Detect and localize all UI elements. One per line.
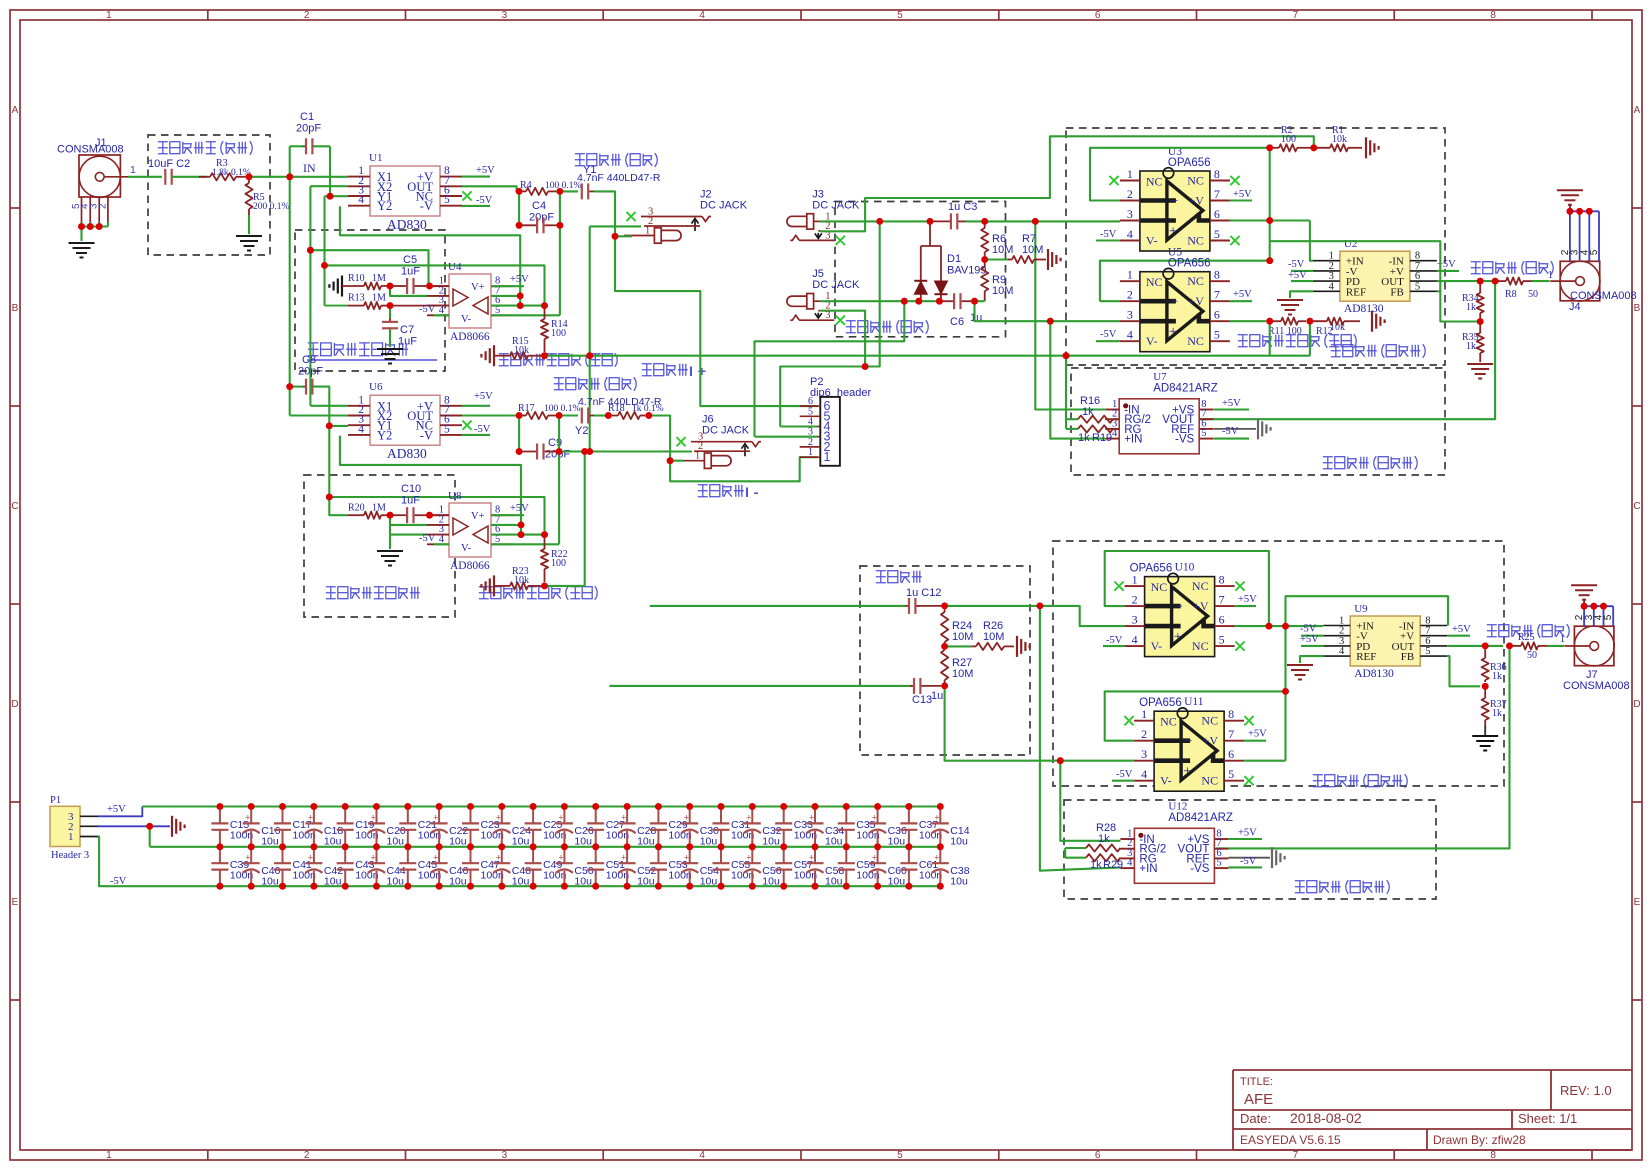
svg-text:Y2: Y2 [377,199,392,213]
svg-text:8: 8 [1219,573,1225,587]
capacitor C61 [908,847,910,863]
junction J1 shield c [96,223,103,230]
svg-text:20pF: 20pF [296,123,321,135]
svg-text:6: 6 [1095,1150,1101,1161]
wire Y1 to J2 node [594,191,615,236]
wire U6 pin1 from X2line [310,405,348,407]
svg-text:OPA656: OPA656 [1168,258,1211,270]
svg-text:C1: C1 [300,111,314,123]
svg-text:NC: NC [1146,275,1163,289]
svg-text:Y2: Y2 [377,428,392,442]
svg-text:10u: 10u [950,876,968,888]
junction C13 out [941,683,948,690]
resistor R14 [544,306,546,319]
junction J5c [936,298,943,305]
svg-text:6: 6 [1219,613,1225,627]
junction R4 right [557,188,564,195]
capacitor C25 [530,803,537,810]
svg-text:+: + [496,852,501,862]
svg-text:+5V: +5V [1248,729,1267,740]
capacitor C2 [164,169,166,185]
wire R8 to J4 [1532,280,1550,282]
junction R20-C10 [387,512,394,519]
svg-text:8: 8 [1228,707,1234,721]
junction shield J2 riser [586,352,593,359]
wire C9 node to U8 pin5 [558,452,560,545]
svg-text:5: 5 [1589,249,1600,255]
junction C1-Y1 [327,193,334,200]
svg-text:1: 1 [1132,573,1138,587]
wire R4 to Y1cap [556,190,578,192]
svg-text:4: 4 [1127,227,1133,241]
capacitor C30 [686,803,693,810]
svg-text:1: 1 [1560,634,1565,645]
wire P2 pin4 route [780,425,817,427]
wire U5 -5V stub [1096,340,1120,342]
capacitor C36 [874,803,881,810]
svg-text:NC: NC [1192,639,1209,653]
no-connect U10 pin5 [1235,642,1244,651]
wire U3 -5V stub [1096,239,1120,241]
svg-text:+5V: +5V [476,165,495,176]
wire U4 pin7 [491,295,520,297]
wire U4 pin5 [491,314,560,316]
svg-text:100n: 100n [919,870,943,882]
svg-text:4: 4 [358,423,364,435]
svg-text:-5V: -5V [419,533,436,544]
svg-text:1uF: 1uF [401,266,420,278]
junction shield RG riser [1063,352,1070,359]
svg-text:+5V: +5V [1222,398,1241,409]
ground U9 REF [1287,664,1313,666]
svg-text:+: + [371,852,376,862]
label dianLiuCaiJi 1 [1313,774,1407,788]
svg-text:U7: U7 [1153,371,1167,383]
wire C5 to U4 pin1 [430,285,450,287]
wire U3 +5V stub [1230,199,1252,201]
svg-text:-5V: -5V [476,195,493,206]
wire J3 pin1 [820,220,876,222]
svg-text:+: + [371,813,376,823]
wire U2 FB to R34 node [1440,291,1480,321]
svg-text:7: 7 [1228,727,1234,741]
wire U6 Y2 [340,436,521,535]
svg-text:D1: D1 [947,253,961,265]
no-connect U11 pin5 [1244,776,1253,785]
svg-text:10u: 10u [324,876,342,888]
svg-text:10u: 10u [574,836,592,848]
wire Y2 to R18 [594,414,605,416]
no-connect U6 pin6 [462,421,471,430]
wire U12 pin8 stub [1228,838,1262,840]
junction C3 riser [1032,218,1039,225]
ground bars R7 [1047,249,1049,270]
svg-text:+: + [684,852,689,862]
junction U11 fb tap [1282,688,1289,695]
svg-text:U6: U6 [369,381,383,393]
label jingXiangDianLiu I- [698,485,744,497]
wire U8 pin7 [491,524,521,526]
svg-text:NC: NC [1187,174,1204,188]
svg-text:10u: 10u [574,876,592,888]
junction U5pin3 riser [1047,318,1054,325]
wire U9 REF gnd [1300,656,1323,663]
svg-text:10u: 10u [387,836,405,848]
svg-text:R11 100: R11 100 [1268,326,1302,337]
wire caprail top [142,805,940,807]
wire U9 pin7 stub [1447,635,1470,637]
IC U7 AD8421ARZ [1119,399,1199,454]
svg-text:2: 2 [97,203,108,209]
wire U7 pin8 stub [1213,408,1249,410]
capacitor C31 [718,803,725,810]
svg-text:100n: 100n [606,830,630,842]
wire J3 pin1 riser tie [865,221,880,366]
wire U2 pin2 stub [1291,270,1313,272]
junction R17 right [556,412,563,419]
svg-text:100: 100 [551,328,566,339]
svg-text:-V: -V [420,428,433,442]
ground J7 shield [1571,584,1597,586]
svg-text:R10: R10 [348,273,365,284]
svg-text:10u: 10u [637,836,655,848]
capacitor C56 [751,847,753,863]
svg-text:2: 2 [1127,288,1133,302]
junction C8 left [286,383,293,390]
svg-text:DC JACK: DC JACK [812,199,860,211]
svg-text:U8: U8 [448,490,462,502]
svg-text:NC: NC [1187,274,1204,288]
svg-text:1M: 1M [372,503,386,514]
wire hook ground [389,535,391,549]
junction R8 left [1492,278,1499,285]
svg-text:−: − [1184,734,1192,750]
junction P1 gnd [146,823,153,830]
wire C6 node to U7 pin4 [1050,321,1105,438]
svg-text:D: D [1633,699,1640,710]
capacitor C14 [937,803,944,810]
svg-text:-5V: -5V [1288,259,1305,270]
wire shield bottom to riser [545,585,585,587]
svg-text:100n: 100n [731,830,755,842]
svg-text:20pF: 20pF [529,212,554,224]
op-amp U10 OPA656 [1145,577,1215,657]
wire U12 REF gnd [1228,857,1270,859]
resistor R18 [608,415,618,417]
svg-text:-5V: -5V [1100,329,1117,340]
svg-text:1: 1 [68,831,74,843]
svg-text:+5V: +5V [1233,189,1252,200]
svg-text:1uF: 1uF [401,495,420,507]
junction R17 left [516,412,523,419]
svg-text:NC: NC [1151,580,1168,594]
junction J1 shield b [87,223,94,230]
svg-text:-5V: -5V [474,424,491,435]
capacitor C46 [438,847,440,863]
svg-text:-5V: -5V [1222,426,1239,437]
svg-text:10u: 10u [512,876,530,888]
svg-text:DC JACK: DC JACK [702,425,750,437]
svg-text:100n: 100n [481,870,505,882]
svg-text:-V: -V [420,199,433,213]
svg-text:10u: 10u [324,836,342,848]
svg-text:+: + [1169,324,1177,340]
svg-text:4: 4 [1339,646,1345,657]
label fanXiangServo [326,587,420,599]
svg-text:U4: U4 [448,261,462,273]
wire C12 node to U10 [941,606,1125,626]
svg-text:+: + [1183,764,1191,780]
op-amp U5 OPA656 [1140,272,1210,352]
wire U3 out [1230,219,1310,221]
junction R34-R35 [1477,318,1484,325]
svg-text:100n: 100n [355,870,379,882]
svg-text:2: 2 [304,1150,310,1161]
wire P2 pin3 route [755,436,818,438]
svg-text:-5V: -5V [419,304,436,315]
svg-text:+: + [621,813,626,823]
junction C4 right [557,222,564,229]
svg-text:U11: U11 [1184,696,1204,708]
IC U12 AD8421ARZ [1134,828,1214,883]
svg-text:+5V: +5V [1233,289,1252,300]
capacitor C50 [563,847,565,863]
ground bars R15 [493,345,495,366]
junction R36 top [1482,643,1489,650]
ground R5 [236,235,262,237]
junction dots overlay [78,144,1607,889]
svg-text:10u: 10u [888,876,906,888]
svg-text:8: 8 [1214,268,1220,282]
label dianYaCaiJi 1 [1331,344,1425,358]
svg-text:+: + [809,852,814,862]
svg-text:1: 1 [808,447,813,458]
wire U6 Y1 input [329,425,348,427]
wire U8 pin2 pin3 hook [389,515,391,534]
svg-text:3: 3 [1132,613,1138,627]
svg-text:C6: C6 [950,316,964,328]
svg-text:+: + [934,852,939,862]
wire C10 to U8 pin1 [430,514,450,516]
capacitor C49 [532,847,534,863]
svg-text:E: E [12,897,19,908]
svg-text:4: 4 [1141,767,1147,781]
wire shield line to R11R12 [545,355,1310,357]
svg-text:1u: 1u [931,690,943,702]
wire VOUT riser J4 [1199,281,1495,419]
svg-text:U2: U2 [1344,238,1357,250]
svg-text:10M: 10M [952,668,973,680]
label tongXiangServo [308,343,408,356]
wire U11 out [1244,760,1285,762]
wire U12 pin5 stub [1228,866,1262,868]
svg-text:1: 1 [1127,167,1133,181]
junction R25 left [1506,643,1513,650]
svg-text:10M: 10M [983,631,1004,643]
svg-text:+5V: +5V [1238,594,1257,605]
junction R3-R5 [246,173,253,180]
wire J6 pin1 [670,460,683,462]
svg-text:6: 6 [1228,747,1234,761]
capacitor C18 [311,803,318,810]
wire P1 -5V [98,837,220,887]
ground U2 REF [1277,299,1303,301]
svg-text:4: 4 [358,194,364,206]
capacitor C32 [749,803,756,810]
capacitor C23 [467,803,474,810]
junction R18 left [605,412,612,419]
svg-text:100n: 100n [668,870,692,882]
capacitor C43 [344,847,346,863]
wire U10 +5V stub [1235,605,1256,607]
svg-text:CONSMA008: CONSMA008 [57,144,124,156]
wire U2 pin7 stub [1437,270,1459,272]
svg-text:-5V: -5V [1240,856,1257,867]
wire Y1riser2 to R20 [329,497,348,515]
capacitor C59 [845,847,847,863]
wire U11 feedback [1105,691,1286,740]
svg-text:I: I [745,485,749,501]
wire IN bus vertical [289,146,291,415]
label geZhiDianLu [876,571,922,583]
svg-text:6: 6 [1214,207,1220,221]
svg-text:10k: 10k [1332,134,1347,145]
svg-text:C8: C8 [302,354,316,366]
junction R34 top [1477,278,1484,285]
wire U2 FB loop [1270,241,1441,291]
svg-text:+IN: +IN [1124,434,1142,446]
svg-text:8: 8 [1214,167,1220,181]
svg-text:4: 4 [699,1150,705,1161]
resistor R3 [199,176,210,178]
svg-text:C7: C7 [400,324,414,336]
svg-text:5: 5 [897,1150,903,1161]
wire U7 REF gnd [1213,428,1256,430]
junction C9 right [556,448,563,455]
ground J1 [69,242,95,244]
wire U5 feedback row [1100,261,1270,302]
svg-text:100n: 100n [230,870,254,882]
svg-text:V-: V- [461,314,472,325]
svg-text:+IN: +IN [1139,863,1157,875]
no-connect U3 pin1 [1109,176,1118,185]
svg-text:AD8130: AD8130 [1354,668,1394,680]
svg-text:+5V: +5V [510,503,529,514]
svg-text:C13: C13 [912,694,932,706]
label dianLanPingBi 2 [1238,334,1356,348]
capacitor C51 [595,847,597,863]
op-amp U11 OPA656 [1154,711,1224,791]
svg-text:V+: V+ [471,282,485,293]
junction C6 out [971,298,978,305]
capacitor C19 [342,803,349,810]
no-connect U11 pin8 [1244,716,1253,725]
wire caprail bottom [220,885,941,887]
junction J2J6 shield tie [586,448,593,455]
svg-text:4.7nF 440LD47-R: 4.7nF 440LD47-R [577,172,661,184]
junction U8out a [518,531,525,538]
ground bars R12 [1371,311,1373,332]
svg-text:10u: 10u [762,836,780,848]
svg-text:1k: 1k [1466,302,1476,313]
svg-text:+: + [934,813,939,823]
svg-text:10u: 10u [512,836,530,848]
block box current sense U12 [1064,800,1436,899]
svg-text:AD8066: AD8066 [450,331,490,343]
wire IN to U1 pin1 [286,176,348,178]
svg-text:6: 6 [1095,10,1101,21]
capacitor C41 [282,847,284,863]
wire servo feedback top [325,265,545,305]
svg-text:IN: IN [303,161,316,175]
junction J6pin2 riser [581,448,588,455]
svg-text:+: + [746,813,751,823]
svg-text:1k: 1k [1466,341,1476,352]
wire J3 pin1 to C3 [876,220,927,222]
svg-text:100: 100 [1281,134,1296,145]
wire U1 X2 input [310,185,348,187]
wire J4 shield stubs [1569,211,1571,261]
capacitor C54 [689,847,691,863]
svg-text:-5V: -5V [1116,769,1133,780]
svg-text:-: - [754,485,759,501]
junction U10out chain [1282,623,1289,630]
svg-text:3: 3 [1127,308,1133,322]
resistor R4 [519,190,526,192]
capacitor C26 [561,803,568,810]
svg-text:7: 7 [1214,288,1220,302]
wire C9 row to J6 pin2 [559,450,585,452]
wire U6 Y1 riser down [328,426,330,497]
junction shield top node [541,352,548,359]
svg-text:OPA656: OPA656 [1168,157,1211,169]
svg-text:+5V: +5V [107,804,126,815]
junction C4 left [516,222,523,229]
svg-text:R19: R19 [1092,432,1112,444]
svg-text:Sheet: 1/1: Sheet: 1/1 [1518,1111,1577,1126]
svg-text:10u: 10u [449,876,467,888]
svg-text:3: 3 [825,310,830,321]
svg-text:10u: 10u [387,876,405,888]
wire J2pin1 to P2 pin6 (mirror I+) [615,236,817,406]
svg-text:100n: 100n [919,830,943,842]
svg-text:5: 5 [1219,633,1225,647]
svg-text:2: 2 [1132,593,1138,607]
svg-text:+V: +V [1193,599,1209,613]
svg-text:10uF C2: 10uF C2 [148,158,190,170]
ground bars U12 REF [1271,847,1273,868]
label anQuanDianRong 1 [575,153,657,167]
svg-text:Drawn By: zfiw28: Drawn By: zfiw28 [1433,1133,1526,1147]
svg-text:R8: R8 [1505,289,1517,300]
svg-text:10u: 10u [825,836,843,848]
ground R37 [1472,735,1498,737]
junction R6-R7 [981,256,988,263]
svg-text:−: − [1170,194,1178,210]
svg-text:10k: 10k [514,345,529,356]
wire U9 OUT [1447,645,1503,647]
svg-text:B: B [1634,303,1641,314]
junction J1 shield a [78,223,85,230]
capacitor C16 [248,803,255,810]
junction J6 pin1 [667,457,674,464]
junction J2 pin1 [612,233,619,240]
svg-text:50: 50 [1527,650,1537,661]
wire R5 to ground [248,215,250,234]
svg-text:5: 5 [1214,227,1220,241]
svg-text:100n: 100n [856,870,880,882]
wire J7 shield stubs [1583,606,1585,626]
